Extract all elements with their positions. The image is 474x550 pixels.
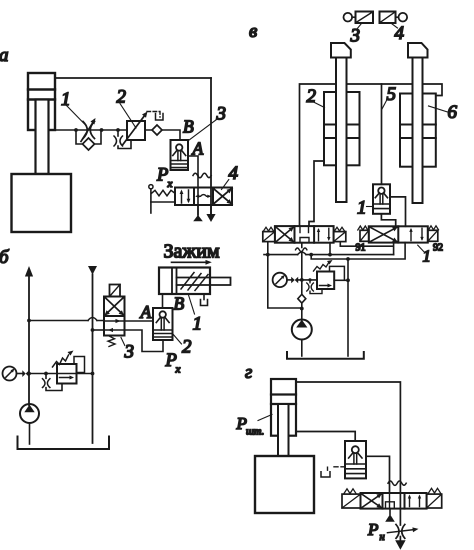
node dots on R1 (266, 253, 332, 257)
valve 4 middle position arrows (197, 195, 210, 197)
svg-text:6: 6 (448, 102, 458, 123)
clamp cylinder (б) (159, 268, 210, 295)
rod (177, 278, 231, 286)
wire: main horizontal (б) (29, 373, 93, 375)
relief output to tank line (334, 279, 348, 281)
wire: pump line up to 9-1 (301, 243, 303, 320)
svg-text:4: 4 (395, 23, 405, 44)
plugged pilot port bracket (156, 114, 164, 121)
dashed pilot line (г) (331, 466, 345, 468)
wire: valve1 bottom to valve 9-2 (381, 214, 395, 227)
piston rod (а) (36, 100, 49, 175)
relief drain loop with orifice (44, 372, 48, 376)
svg-text:1: 1 (193, 314, 203, 335)
tank (б) (18, 437, 110, 450)
tank drain vertical (347, 259, 349, 356)
tank (в) (287, 352, 364, 359)
check valve bypass loop under throttle 1 (76, 130, 101, 144)
spring of valve 3 (108, 336, 115, 347)
svg-text:x: x (167, 178, 173, 190)
solenoid left (9-1) (263, 232, 275, 242)
svg-text:B: B (183, 117, 194, 137)
cylinder (г) (271, 379, 296, 436)
wire: upper horizontal to valve 3 (jump over vertical 2) (29, 320, 104, 322)
svg-text:3: 3 (216, 104, 227, 125)
wire: main line from cylinder (55, 129, 127, 131)
directional valve 4 (175, 188, 232, 206)
solenoid of valve 3 (110, 285, 121, 297)
pilot line to valve body (151, 201, 175, 203)
9-1 right position arrows (319, 228, 329, 240)
svg-text:A: A (192, 139, 204, 159)
sequence valve 2 (б) (153, 308, 173, 340)
pilot stem (150, 189, 152, 213)
return line (vertical 2) (92, 275, 94, 444)
valve 3 lower position arrows (104, 321, 125, 330)
check valve diamond (bypass) (83, 138, 95, 150)
pilot check valve (г) (345, 441, 366, 478)
svg-text:г: г (245, 363, 252, 383)
svg-text:3: 3 (124, 342, 135, 363)
svg-text:A: A (140, 302, 152, 322)
limit switch 3 (344, 13, 353, 22)
node dots on main line (74, 128, 120, 132)
lower drain line L1 (311, 243, 405, 259)
svg-text:91: 91 (356, 243, 366, 254)
right ram head (408, 43, 428, 58)
directional valve 9-2 (369, 226, 428, 242)
svg-text:Зажим: Зажим (164, 241, 220, 263)
gauge line with relief input (287, 279, 291, 281)
svg-text:2: 2 (182, 337, 192, 358)
relief valve (в) (317, 272, 334, 290)
svg-text:а: а (0, 45, 9, 66)
gauge shutoff (в) (291, 277, 295, 283)
cylinder (а) (28, 73, 55, 130)
check valve 1 (в) (373, 184, 390, 214)
flow arrow down (right line) (210, 205, 212, 214)
check diamond on pump line (298, 294, 306, 303)
wire: top pipe from cylinder cap (296, 382, 400, 481)
svg-text:4: 4 (229, 163, 239, 184)
directional valve 3 (б) (104, 297, 125, 336)
solenoid right (9-1) (334, 232, 346, 242)
relief valve (б) (57, 364, 77, 384)
svg-text:Р: Р (367, 520, 378, 539)
svg-text:б: б (0, 247, 10, 268)
svg-text:5: 5 (387, 84, 397, 105)
svg-text:2: 2 (117, 87, 127, 108)
wire: top pipe with corners (300, 84, 443, 226)
wire: pipe from cylinder cap to right vertical (55, 77, 211, 79)
throttle 1 (adjustable) (81, 122, 95, 142)
wire: line A valve3 to valve2 (125, 320, 154, 322)
feed triangle down (88, 266, 97, 275)
adjustable spring arrow of relief valve (53, 355, 69, 367)
wire: check valve to directional valve (366, 456, 390, 493)
middle position symbol (386, 502, 395, 509)
wire + arrow down (399, 537, 401, 542)
limit switch 4 (380, 12, 396, 24)
right ram (413, 58, 423, 204)
svg-text:в: в (249, 21, 257, 42)
pilot port circle Px (149, 185, 153, 189)
wire: lower horizontal to valve 3 (93, 329, 105, 331)
left ram (336, 58, 347, 203)
motion arrow (172, 261, 206, 263)
pressure reducing valve 2 (127, 121, 145, 140)
wire: line 5 (381, 84, 383, 184)
directional valve (г) (361, 493, 427, 509)
wire: rod side port to check valve (296, 432, 355, 442)
wire: 9-1 right port drain (329, 243, 331, 255)
valve 4 left position arrows (182, 190, 189, 203)
svg-text:x: x (175, 364, 181, 376)
tank symbol (left line) (197, 205, 199, 216)
svg-text:1: 1 (357, 198, 367, 219)
plugged pilot bracket (321, 472, 330, 477)
wire: through valve down (389, 493, 391, 509)
right cylinder barrel (6) (400, 94, 436, 167)
hose wavy (г) (388, 481, 406, 485)
wire: left L to pump suction (268, 255, 302, 308)
right position arrows (410, 497, 420, 507)
load mass (а) (12, 174, 72, 232)
drain loop with orifice under valve 2 (117, 130, 119, 136)
svg-text:2: 2 (307, 86, 317, 107)
node dots vertical 1 (27, 319, 31, 376)
flow arrow up (25, 266, 33, 277)
svg-text:1: 1 (61, 89, 71, 110)
9-1 middle position symbols (300, 226, 309, 232)
left ram head (331, 43, 351, 58)
svg-text:н: н (380, 532, 385, 543)
node dots vertical 2 (91, 328, 95, 375)
svg-text:шт.: шт. (246, 427, 264, 438)
spring of valve 4 (152, 190, 176, 196)
drain port of cylinder (203, 294, 205, 300)
svg-text:B: B (174, 294, 185, 314)
gauge shutoff valve (22, 370, 25, 377)
check valve diamond (after valve 2) (152, 125, 162, 135)
piston rod (г) (278, 404, 289, 456)
wire: 9-1 right solenoid drain (339, 243, 341, 247)
solenoid right (9-2) (428, 230, 438, 241)
left cylinder barrel (2) (324, 92, 360, 165)
svg-text:1: 1 (423, 247, 431, 266)
pressure gauge (в) (273, 273, 287, 287)
wire: valve1 right to valve 9-2 (390, 197, 406, 226)
svg-text:P: P (156, 166, 168, 186)
node dot L1/tank (346, 257, 350, 261)
pump pressure line (vertical 1) (28, 276, 30, 405)
pump (б) (20, 404, 39, 423)
relief pilot loop (right) (74, 357, 85, 373)
wire: 9-1 left drain down (267, 243, 269, 255)
arrow through valve 2 (123, 115, 146, 145)
svg-text:92: 92 (433, 243, 443, 254)
return line R1 with jump (264, 254, 394, 256)
relief drain loop with orifice (в) (308, 278, 311, 281)
solenoid right (г) (427, 494, 442, 508)
wire: port A of valve 3 (188, 156, 198, 176)
upper drain line U (340, 243, 393, 255)
wire: port B cylinder to valve 2 (162, 294, 164, 308)
pump (в) (292, 320, 312, 340)
wire: down to valve 4 ports (197, 176, 199, 215)
wire: valve2 to valve3 (145, 130, 180, 140)
9-2 right position arrows (411, 228, 422, 240)
wire: left cylinder bottom port (309, 161, 324, 226)
hose (wavy line) (193, 173, 211, 177)
relief pilot loop (в) (330, 266, 345, 280)
load throttle Pн (396, 525, 399, 539)
solenoid left (г) (342, 494, 361, 508)
svg-text:3: 3 (350, 26, 361, 47)
valve 4 right position X (213, 188, 232, 204)
wire: pilot line to bottom of valve 2 (125, 330, 164, 352)
directional valve 9-1 (275, 226, 334, 243)
spring in cylinder (181, 273, 208, 291)
pressure gauge (3, 367, 17, 381)
load mass (г) (255, 456, 314, 513)
wire: right vertical down to valve 4 (210, 78, 212, 214)
hose wavy on pump line (296, 248, 307, 252)
pilot-operated check valve 3 (171, 140, 189, 170)
dashed pilot line of valve 2 (147, 112, 160, 118)
tank triangle (г) (389, 509, 391, 515)
solenoid left (9-2) (360, 230, 369, 241)
